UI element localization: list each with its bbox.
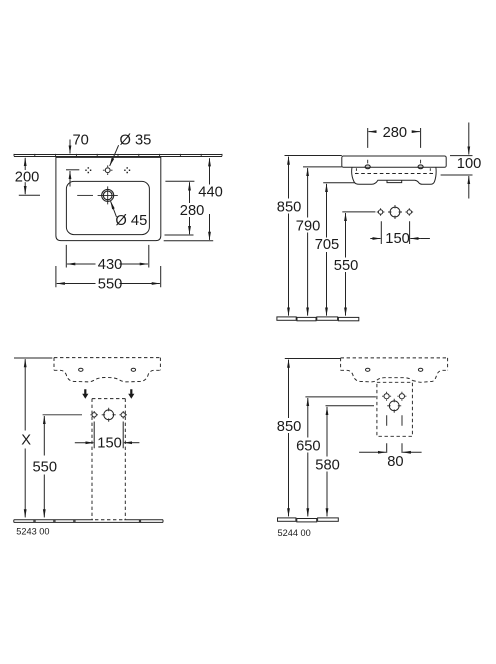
pedestal (hidden, dashed) xyxy=(92,399,125,520)
hidden rim line (dashed) xyxy=(355,173,435,175)
dim 150 (pedestal fixings) xyxy=(75,422,140,452)
pipe stubs in cover xyxy=(387,415,402,426)
drain Ø45 xyxy=(77,186,118,204)
dim 100 xyxy=(441,123,482,199)
svg-text:650: 650 xyxy=(296,439,321,455)
hidden bowl bottom through cover (dashed) xyxy=(377,378,413,381)
floor band (front) xyxy=(14,520,163,523)
dim 850 vertical xyxy=(277,359,341,517)
right fixing symbol xyxy=(406,208,414,216)
dim 280 xyxy=(165,181,205,235)
upper left fixing symbol xyxy=(382,392,391,401)
upper right fixing symbol xyxy=(397,392,406,401)
svg-text:850: 850 xyxy=(277,419,302,435)
floor tiles (elevation) xyxy=(277,317,359,321)
svg-text:5243 00: 5243 00 xyxy=(16,527,49,537)
svg-text:150: 150 xyxy=(97,435,122,451)
siphon cover (hidden, dashed) xyxy=(377,382,413,436)
dim 280 (holes) xyxy=(368,125,421,163)
basin body profile below rim xyxy=(352,167,436,184)
dim 80 (cover width) xyxy=(359,443,422,470)
svg-text:550: 550 xyxy=(33,459,58,475)
svg-text:850: 850 xyxy=(277,200,302,216)
label Ø45 leader xyxy=(111,201,148,229)
drain cover plate on body xyxy=(387,180,402,182)
left spare hole cross xyxy=(85,167,91,173)
dim 650 vertical xyxy=(296,397,376,517)
right wall fixing symbol xyxy=(119,411,127,419)
dim X vertical xyxy=(14,358,52,517)
left fixing symbol xyxy=(377,208,385,216)
left hidden mounting hole xyxy=(79,368,83,371)
basin inner bowl (plan) xyxy=(66,181,149,234)
drain symbol xyxy=(102,408,116,422)
fixing reference line xyxy=(43,414,82,416)
dim 550 xyxy=(56,266,161,292)
right mounting hole xyxy=(418,165,423,169)
right hidden mounting hole xyxy=(131,368,135,371)
dim 850 vertical xyxy=(277,156,342,316)
dim 200 xyxy=(15,158,40,195)
svg-text:150: 150 xyxy=(385,231,410,247)
dim 440 xyxy=(164,158,223,241)
basin rim bar (front elevation) xyxy=(342,156,446,167)
svg-text:Ø 45: Ø 45 xyxy=(115,213,147,229)
left hidden mounting hole (side) xyxy=(366,368,370,371)
right fixing arrow (solid) xyxy=(128,389,134,398)
svg-text:430: 430 xyxy=(98,257,123,273)
svg-text:280: 280 xyxy=(180,203,205,219)
svg-text:550: 550 xyxy=(334,258,359,274)
dim 70 xyxy=(66,133,89,187)
right hidden mounting hole (side) xyxy=(418,368,422,371)
faucet hole Ø35 xyxy=(103,165,113,175)
basin outer rim (plan) xyxy=(56,157,161,240)
dim 550 vertical xyxy=(33,416,58,517)
dim 705 vertical xyxy=(315,183,355,316)
drain outlet symbol (elevation) xyxy=(388,205,402,219)
svg-text:70: 70 xyxy=(73,133,89,149)
svg-text:550: 550 xyxy=(98,276,123,292)
left mounting hole xyxy=(365,165,370,169)
svg-text:280: 280 xyxy=(383,125,408,141)
svg-text:200: 200 xyxy=(15,170,40,186)
hidden verticals (dashed) xyxy=(356,168,430,173)
svg-text:80: 80 xyxy=(387,454,403,470)
svg-text:100: 100 xyxy=(457,156,482,172)
left fixing arrow (solid) xyxy=(82,389,88,398)
hidden basin outline (front, dashed) xyxy=(341,358,448,382)
left wall fixing symbol xyxy=(90,411,98,419)
svg-text:Ø 35: Ø 35 xyxy=(120,133,152,149)
floor tiles (side) xyxy=(278,518,339,522)
svg-text:790: 790 xyxy=(296,218,321,234)
dim 550 vertical xyxy=(334,212,376,316)
dim 430 xyxy=(66,245,149,273)
svg-text:440: 440 xyxy=(198,185,223,201)
svg-text:580: 580 xyxy=(315,458,340,474)
hidden basin outline (front, dashed) xyxy=(54,358,160,382)
svg-text:705: 705 xyxy=(315,237,340,253)
dim 150 (fixings) xyxy=(370,221,430,247)
svg-text:X: X xyxy=(21,433,31,449)
wall tile band (plan) xyxy=(14,154,222,157)
dim 790 vertical xyxy=(296,167,342,316)
right spare hole cross xyxy=(124,167,130,173)
drain symbol (large) xyxy=(387,399,401,413)
label Ø35 leader xyxy=(110,133,152,166)
dim 580 vertical xyxy=(315,406,374,517)
svg-text:5244 00: 5244 00 xyxy=(278,528,311,538)
